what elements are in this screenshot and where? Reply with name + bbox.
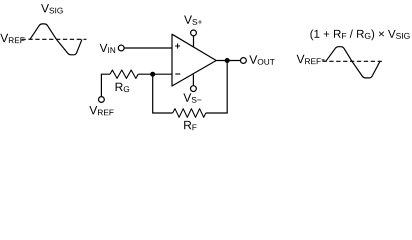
wire VS- to op-amp bottom (192, 75, 194, 86)
input signal sine wave (30, 24, 82, 55)
terminal VS+ (191, 30, 197, 36)
wire VS+ to op-amp top (193, 36, 195, 47)
label VSIG (input wave) (41, 4, 63, 13)
label VS- (183, 93, 201, 102)
label VOUT (249, 55, 274, 64)
resistor RF (173, 109, 206, 118)
label VREF (bottom) (89, 106, 113, 115)
wire VREF to RG (101, 74, 110, 96)
node VREF input waveform centerline (dashed) (22, 38, 87, 40)
label output formula (1 + RF / RG) x VSIG (310, 30, 409, 41)
resistor RG (110, 70, 138, 78)
terminal VOUT (241, 58, 247, 64)
op-amp + symbol (175, 44, 180, 49)
terminal VS- (191, 86, 197, 92)
op-amp U1 triangle (172, 34, 216, 86)
label VS+ (184, 16, 202, 25)
wire RG to inverting input (138, 73, 172, 75)
op-amp - symbol (175, 73, 180, 75)
wire VIN to op-amp + input (124, 47, 172, 49)
label RG (116, 83, 130, 92)
label RF (184, 121, 196, 130)
label VREF (input wave) (0, 34, 24, 43)
node VREF output waveform centerline (dashed) (322, 60, 382, 62)
terminal VIN (118, 45, 124, 51)
label VIN (100, 44, 116, 53)
wire feedback bottom and right vertical to output (206, 61, 227, 114)
output signal sine wave (326, 47, 380, 78)
wire op-amp output (216, 60, 240, 62)
label VREF (output wave) (297, 55, 325, 64)
junction node output (225, 58, 230, 63)
wire feedback left vertical (153, 74, 173, 113)
terminal VREF (bottom) (99, 97, 105, 103)
junction node inverting input (150, 72, 155, 77)
